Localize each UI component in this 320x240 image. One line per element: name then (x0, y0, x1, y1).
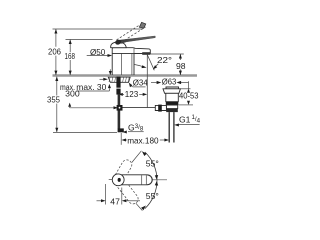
svg-text:22°: 22° (157, 55, 172, 65)
svg-text:max.180: max.180 (127, 137, 159, 146)
svg-text:55°: 55° (146, 191, 159, 201)
svg-text:300: 300 (65, 89, 80, 99)
svg-text:206: 206 (48, 47, 61, 57)
svg-text:47: 47 (110, 196, 120, 206)
svg-text:55°: 55° (146, 158, 159, 168)
svg-text:40-53: 40-53 (179, 90, 199, 100)
svg-text:Ø63: Ø63 (162, 76, 177, 86)
svg-text:Ø34: Ø34 (133, 78, 148, 88)
svg-text:168: 168 (65, 51, 76, 61)
svg-text:max. 30: max. 30 (76, 82, 106, 92)
svg-text:98: 98 (176, 61, 186, 71)
svg-text:123: 123 (125, 89, 139, 99)
svg-text:355: 355 (47, 95, 60, 105)
svg-text:Ø50: Ø50 (90, 47, 106, 57)
